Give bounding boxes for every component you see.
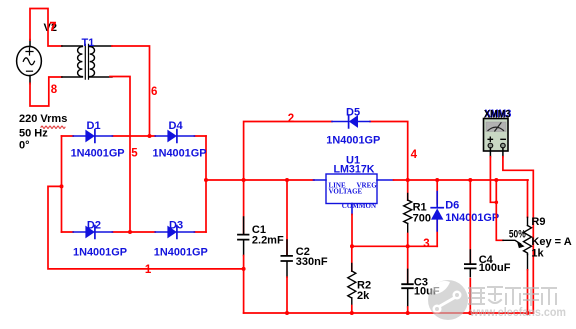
diode D5 xyxy=(332,115,370,128)
junction C2 top xyxy=(285,178,289,182)
transformer T1 xyxy=(62,44,112,79)
resistor R2 xyxy=(348,246,356,313)
svg-text:R9: R9 xyxy=(531,216,545,228)
wire net3 from COMMON xyxy=(352,215,437,247)
svg-text:1N4001GP: 1N4001GP xyxy=(326,134,380,146)
junction R1 bottom xyxy=(406,244,410,248)
svg-text:Key = A: Key = A xyxy=(531,236,571,248)
svg-text:50%: 50% xyxy=(509,229,526,241)
wire XMM- to ground xyxy=(503,157,533,313)
capacitor C3 xyxy=(402,246,413,313)
svg-text:1N4001GP: 1N4001GP xyxy=(154,246,208,258)
spell squiggle xyxy=(41,126,65,128)
svg-text:8: 8 xyxy=(51,84,58,96)
diode D4 xyxy=(155,130,194,143)
svg-text:1k: 1k xyxy=(531,248,544,260)
svg-text:2k: 2k xyxy=(357,290,370,302)
multimeter XMM3 xyxy=(484,119,509,157)
svg-text:3: 3 xyxy=(423,238,429,250)
svg-text:VOLTAGE: VOLTAGE xyxy=(329,188,363,196)
svg-text:6: 6 xyxy=(151,86,157,98)
junction D6 top xyxy=(435,178,439,182)
wire XMM+ to wiper column xyxy=(490,157,496,203)
wire net1 lower rail xyxy=(244,312,534,314)
junction wiper/XMM+ xyxy=(495,201,499,205)
junction net3 left xyxy=(350,244,354,248)
wire net8 source bottom to transformer xyxy=(30,77,62,106)
junction wiper/output xyxy=(494,178,498,182)
svg-text:1N4001GP: 1N4001GP xyxy=(73,246,127,258)
svg-text:T1: T1 xyxy=(82,37,95,49)
junction C4 bottom xyxy=(468,311,472,315)
svg-text:D3: D3 xyxy=(169,219,183,231)
junction net2/C1 xyxy=(242,178,246,182)
svg-text:2: 2 xyxy=(288,113,294,125)
svg-text:COMMON: COMMON xyxy=(342,202,376,210)
watermark xyxy=(428,280,566,320)
svg-text:D1: D1 xyxy=(87,120,101,132)
svg-text:4: 4 xyxy=(411,149,418,161)
junction net6 xyxy=(148,134,152,138)
svg-text:D5: D5 xyxy=(346,106,360,118)
wire net2 riser and top run xyxy=(244,122,408,181)
svg-text:www.elecfans.com: www.elecfans.com xyxy=(469,307,566,319)
svg-text:2.2mF: 2.2mF xyxy=(252,235,284,247)
potentiometer R9 xyxy=(524,180,532,313)
svg-text:330nF: 330nF xyxy=(296,256,328,268)
svg-text:1N4001GP: 1N4001GP xyxy=(71,148,125,160)
wire net7 source top to transformer xyxy=(30,9,62,47)
svg-text:7: 7 xyxy=(50,21,56,33)
junction C2 bottom xyxy=(285,311,289,315)
capacitor C4 xyxy=(465,180,476,313)
wire net1 upper (ground return) xyxy=(48,186,243,269)
junction C3 bottom xyxy=(406,311,410,315)
op-amp regulator U1 LM317K xyxy=(314,174,394,215)
capacitor C1 xyxy=(238,180,249,313)
junction C4 top xyxy=(468,178,472,182)
svg-text:XMM3: XMM3 xyxy=(484,109,511,121)
wiper arm and arrow xyxy=(503,240,521,244)
bridge frame wires xyxy=(61,136,63,232)
wire net5 secondary bottom xyxy=(110,77,130,233)
svg-text:D2: D2 xyxy=(87,219,101,231)
svg-text:5: 5 xyxy=(131,148,138,160)
wire output right of U1 xyxy=(394,179,529,181)
junction R2 bottom xyxy=(350,311,354,315)
junction bridge right xyxy=(204,178,208,182)
junction net1/C1 column xyxy=(242,267,246,271)
svg-text:1: 1 xyxy=(145,264,152,276)
svg-text:700: 700 xyxy=(413,212,431,224)
junction net4/R1 xyxy=(406,178,410,182)
junction net5 xyxy=(128,230,132,234)
svg-text:220 Vrms: 220 Vrms xyxy=(19,113,67,125)
AC source V2 xyxy=(17,40,42,84)
svg-text:0°: 0° xyxy=(19,139,30,151)
svg-text:100uF: 100uF xyxy=(479,262,511,274)
junction R9 bottom xyxy=(526,311,530,315)
svg-text:D4: D4 xyxy=(169,120,184,132)
svg-text:D6: D6 xyxy=(445,200,459,212)
wire wiper column xyxy=(496,180,503,240)
wire output node (net: bridge + to LM317 LINE) xyxy=(206,179,314,181)
wire net6 secondary top xyxy=(112,46,150,136)
resistor R1 xyxy=(404,180,412,246)
capacitor C2 xyxy=(281,180,292,313)
svg-text:LM317K: LM317K xyxy=(334,164,375,176)
diode D2 xyxy=(73,226,112,239)
diode D6 xyxy=(431,180,443,246)
svg-text:50 Hz: 50 Hz xyxy=(19,127,48,139)
svg-text:1N4001GP: 1N4001GP xyxy=(153,148,207,160)
svg-text:1N4001GP: 1N4001GP xyxy=(445,212,499,224)
diode D1 xyxy=(73,130,112,143)
diode D3 xyxy=(155,226,194,239)
junction bridge left xyxy=(60,184,64,188)
